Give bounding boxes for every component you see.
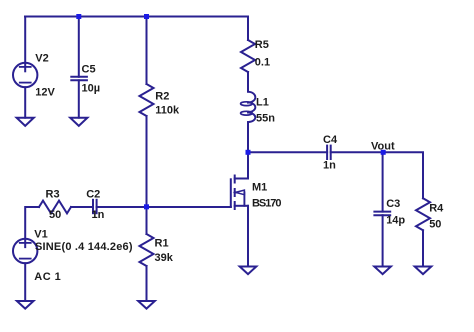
capacitor C4 [327,146,331,159]
svg-text:1n: 1n [92,209,105,221]
ground (R4) [415,267,432,275]
ground (R1) [138,301,155,309]
svg-text:50: 50 [429,219,441,231]
resistor R3 [39,201,71,214]
svg-text:SINE(0 .4 144.2e6): SINE(0 .4 144.2e6) [35,241,133,253]
svg-text:50: 50 [49,209,61,221]
wire drain lead M1 [247,152,249,178]
ground (V2) [17,118,34,126]
wire top rail corner to R5 [247,17,249,41]
resistor R1 [140,234,154,266]
wire C3 top lead [382,152,384,211]
wire source lead M1 [247,206,249,267]
svg-text:R4: R4 [429,203,444,215]
wire top rail [25,16,248,18]
resistor R4 [416,198,430,230]
ground (C3) [374,267,391,275]
wire C3 bottom lead [382,215,384,266]
resistor R2 [140,84,154,116]
svg-text:0.1: 0.1 [255,57,270,69]
wire V2 bottom lead [24,87,26,118]
svg-text:V2: V2 [35,53,48,65]
ground (M1 source) [240,267,257,275]
wire C2 to gate node [97,206,147,208]
transistor M1 [231,176,248,210]
svg-text:12V: 12V [35,87,55,99]
svg-text:R1: R1 [155,237,169,249]
voltage source V1 [13,239,37,263]
capacitor C5 [71,77,87,81]
junction C5 top [76,14,81,19]
wire C5 bottom lead [78,80,80,117]
wire V2 top lead [24,17,26,72]
wire Vout node to R4 corner [383,152,423,198]
svg-text:BS170: BS170 [252,198,282,210]
svg-text:L1: L1 [256,97,269,109]
wire drain node to C4 [248,151,327,153]
svg-text:R2: R2 [155,90,169,102]
wire R3 to C2 [71,206,93,208]
ground (C5) [70,118,87,126]
wire L1 to drain node [247,122,249,152]
wire V1 top lead [25,207,39,247]
svg-text:55n: 55n [256,113,275,125]
wire C5 top lead [78,17,80,77]
svg-text:14p: 14p [386,215,405,227]
inductor L1 [241,92,256,122]
svg-text:R5: R5 [255,39,269,51]
ground (V1) [17,301,34,309]
svg-text:AC 1: AC 1 [34,271,61,283]
svg-text:Vout: Vout [371,140,395,152]
voltage source V2 [13,63,37,87]
svg-text:39k: 39k [155,252,174,264]
svg-text:R3: R3 [46,189,60,201]
svg-text:110k: 110k [155,105,180,117]
wire V1 bottom lead [24,263,26,301]
wire gate node to R1 [146,207,148,234]
svg-text:10µ: 10µ [82,83,101,95]
svg-text:C2: C2 [86,189,100,201]
wire C4 to Vout node [331,151,384,153]
wire gate node to M1 gate [147,206,231,208]
wire R4 bottom lead [422,230,424,266]
wire R1 bottom lead [146,266,148,301]
wire R2 top lead [146,17,148,85]
wire R2 to gate node [146,116,148,207]
junction drain node [246,150,251,155]
junction R2 top [144,14,149,19]
junction gate node [144,204,149,209]
svg-text:C5: C5 [82,64,96,76]
svg-text:C4: C4 [323,134,338,146]
svg-text:1n: 1n [323,159,336,171]
wire R5 to L1 [247,72,249,92]
svg-text:M1: M1 [252,181,267,193]
junction Vout node [381,150,386,155]
capacitor C2 [93,200,97,213]
svg-text:V1: V1 [34,229,47,241]
resistor R5 [241,40,255,72]
svg-text:C3: C3 [386,198,400,210]
capacitor C3 [374,212,390,216]
